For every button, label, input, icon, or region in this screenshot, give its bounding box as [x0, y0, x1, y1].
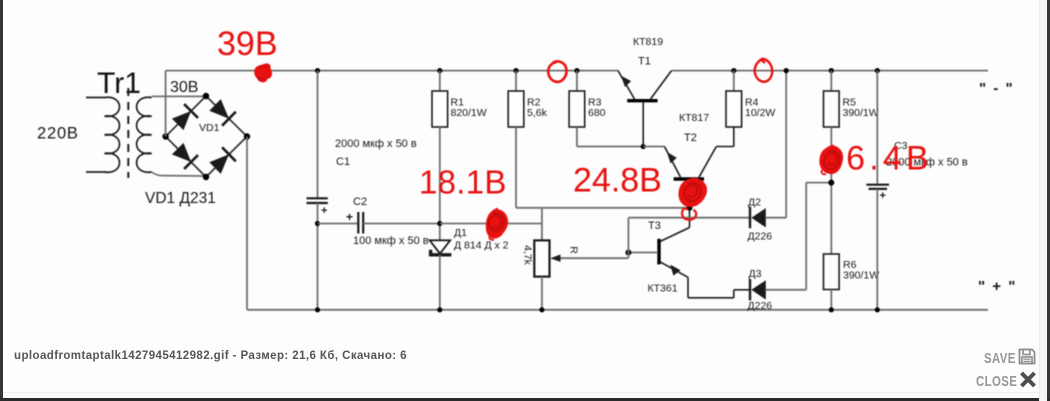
svg-text:" + ": " + " — [978, 278, 1017, 295]
node C1 bottom rail junction — [315, 307, 320, 312]
diode bridge edge+diode VD1b (top corner to right corner) — [206, 96, 247, 137]
svg-text:КТ819: КТ819 — [633, 36, 663, 48]
filename caption — [14, 350, 407, 362]
wire R5 bottom lead — [830, 127, 832, 254]
wire R6 bottom lead — [830, 290, 832, 310]
svg-text:R: R — [568, 246, 580, 254]
red annotation 18.1В — [419, 164, 507, 201]
wire primary bottom lead — [86, 171, 105, 173]
transformer Tr1 label — [97, 67, 141, 100]
label 10/2W (R4 value) — [745, 107, 775, 119]
svg-text:VD1: VD1 — [199, 122, 220, 134]
red scribble blob on T2 emitter — [678, 178, 707, 207]
node C1/C2 junction — [315, 221, 320, 226]
svg-text:Д226: Д226 — [748, 300, 773, 312]
label 820/1W (R1 value) — [451, 107, 487, 119]
svg-text:4,7k: 4,7k — [522, 245, 534, 266]
bottom dark border — [0, 398, 1050, 401]
diode Д3 triangle — [751, 280, 765, 299]
wire R3 to T1 base node — [577, 146, 643, 148]
transformer secondary winding — [137, 97, 152, 172]
label C3 — [894, 140, 908, 152]
wire pot top vertical — [541, 208, 543, 241]
transformer core dashed line — [127, 88, 129, 178]
zener diode D1 triangle — [430, 240, 451, 253]
svg-text:+: + — [346, 210, 353, 224]
node T1 base junction — [641, 144, 646, 149]
right dark border — [1047, 0, 1050, 401]
node output rail / R5 branch — [829, 68, 834, 73]
wire R4 top lead — [733, 71, 735, 91]
wire C2 left lead — [318, 223, 359, 225]
svg-text:Д 814 Д x 2: Д 814 Д x 2 — [454, 240, 509, 252]
label C1 plus polarity — [321, 205, 327, 217]
diode bridge edge+diode VD1d (bottom corner to right corner) — [206, 137, 247, 178]
red scribble blob on raw rail near 39В — [254, 63, 272, 82]
node raw rail / R1 branch — [437, 68, 442, 73]
svg-text:Д1: Д1 — [454, 227, 467, 239]
wire Д2 to rail drop — [766, 217, 786, 219]
transistor T1 base lead — [642, 102, 644, 146]
wire T3 base lead — [628, 252, 658, 254]
wire R2 top lead — [515, 71, 517, 91]
wire R2 corner to reference line — [516, 207, 542, 209]
label Д226 (D3 type) — [748, 300, 773, 312]
wire R3 top lead — [576, 71, 578, 91]
label 30В secondary voltage — [170, 79, 198, 96]
label T3 — [648, 220, 661, 232]
svg-text:T2: T2 — [684, 132, 697, 144]
red annotation 39В — [217, 25, 278, 63]
wire C2 right lead to D1 node — [363, 223, 440, 225]
label R rotated (pot designator) — [568, 246, 580, 254]
resistor R4 body — [726, 91, 742, 127]
node T2 emitter / reference junction — [687, 205, 693, 211]
wire C1 top lead — [317, 71, 319, 198]
label 4,7k rotated (pot value) — [522, 245, 534, 266]
node bridge left corner — [162, 133, 168, 139]
transistor T3 collector diagonal — [660, 228, 690, 242]
label Д3 — [749, 268, 762, 280]
wire R3 bottom lead — [576, 127, 578, 147]
label R1 — [451, 97, 465, 109]
svg-text:390/1W: 390/1W — [843, 107, 879, 119]
terminal plus label — [978, 278, 1017, 295]
node output rail / R4 branch — [731, 68, 736, 73]
svg-text:39В: 39В — [217, 25, 278, 63]
svg-text:820/1W: 820/1W — [451, 107, 487, 119]
zener diode D1 cathode bar with tail — [431, 250, 452, 255]
label 100 мкф x 50 в (C2 value) — [353, 235, 429, 247]
diode Д3 cathode bar — [749, 279, 751, 300]
left dark border — [0, 0, 3, 401]
wire R2 bottom lead — [515, 127, 517, 208]
save floppy icon — [1018, 348, 1036, 365]
transistor T1 base bar — [627, 99, 657, 102]
svg-text:100 мкф x 50 в: 100 мкф x 50 в — [353, 235, 429, 247]
svg-text:T3: T3 — [648, 220, 661, 232]
red scribble ring on output rail left of R4 — [755, 59, 773, 82]
node raw rail / R2 branch — [513, 68, 518, 73]
node D1 bottom rail junction — [437, 307, 442, 312]
label C1 — [336, 156, 350, 168]
transistor T3 base bar — [657, 239, 660, 265]
label KT361 (T3 type) — [648, 283, 678, 295]
resistor R1 body — [432, 91, 448, 127]
svg-text:КТ817: КТ817 — [679, 112, 709, 124]
label Д1 — [454, 227, 467, 239]
red scribble blob on R5 lead (36.4В) — [819, 146, 843, 175]
label R6 — [843, 259, 857, 271]
node output rail / C3 branch — [875, 68, 880, 73]
label 390/1W (R5 value) — [843, 107, 879, 119]
label Д2 — [748, 197, 761, 209]
wire C1 bottom lead — [317, 203, 319, 310]
svg-text:24.8В: 24.8В — [573, 162, 662, 200]
wire output rail down to Д2 — [785, 71, 787, 218]
close X icon — [1019, 371, 1037, 388]
potentiometer wiper arrow — [550, 255, 628, 262]
resistor R5 body — [824, 91, 840, 127]
label 5,6k (R2 value) — [527, 107, 548, 119]
svg-text:Д226: Д226 — [748, 231, 773, 243]
wire T2 emitter down lead — [689, 181, 691, 228]
svg-text:Д3: Д3 — [749, 268, 762, 280]
svg-text:220В: 220В — [37, 125, 79, 143]
capacitor C2 plates — [358, 212, 363, 234]
label KT819 (T1 type) — [633, 36, 663, 48]
diode bridge edge+diode VD1c (left corner to bottom corner) — [166, 137, 206, 178]
svg-text:+: + — [321, 205, 327, 217]
transistor T3 emitter diagonal with arrow — [660, 262, 688, 278]
label C3 plus polarity — [880, 190, 886, 202]
node R5/R6/Д3 junction — [828, 180, 834, 186]
red scribble ring on raw rail left of R3 — [548, 61, 566, 81]
wire pot bottom lead — [541, 277, 543, 310]
wire secondary top lead to bridge top node — [152, 95, 204, 97]
svg-text:" - ": " - " — [979, 80, 1014, 97]
wire corner up to R5/R6 node — [805, 183, 807, 290]
potentiometer R body — [534, 240, 549, 276]
save button label — [984, 350, 1016, 367]
red annotation 36.4В — [823, 140, 933, 178]
resistor R2 body — [508, 91, 524, 127]
label C2 — [353, 196, 367, 208]
capacitor C1 plates — [307, 198, 328, 203]
wire bridge right corner down to bottom rail — [246, 137, 248, 310]
label Д226 (D2 type) — [748, 231, 773, 243]
label VD1 Д231 — [145, 190, 216, 207]
transistor T2 base bar — [674, 177, 704, 180]
wire top raw rail (bridge to T1 emitter) — [166, 70, 618, 72]
red scribble cup below T2 emitter blob — [682, 209, 696, 220]
subtle right-edge shading — [1040, 0, 1047, 401]
label R2 — [527, 97, 541, 109]
label R4 — [745, 97, 759, 109]
svg-text:30В: 30В — [170, 79, 198, 96]
terminal minus label — [979, 80, 1014, 97]
node R6 bottom rail junction — [829, 307, 834, 312]
label 2000 мкф x 50 в (C3 value) — [886, 157, 968, 169]
transistor T2 collector diagonal — [699, 147, 716, 178]
svg-text:T1: T1 — [638, 56, 651, 68]
wire step up to Д3 — [733, 290, 735, 298]
transistor T2 emitter diagonal with arrow — [665, 147, 681, 178]
wire D1 node to pot vertical — [440, 223, 542, 225]
diode bridge edge+diode VD1a (left corner to top corner) — [166, 96, 206, 137]
svg-text:КТ361: КТ361 — [648, 283, 678, 295]
wire reference line y=208 to T2 emitter node — [542, 207, 690, 209]
wire corner to R5/R6 node — [806, 182, 831, 184]
wire bridge left corner up to raw negative rail — [165, 71, 167, 137]
wire secondary bottom lead to bridge bottom node — [152, 172, 205, 176]
wire D1 bottom lead — [439, 255, 441, 310]
subtle separator line above bottom border — [3, 392, 1047, 393]
node pot bottom rail junction — [539, 307, 544, 312]
label T1 — [638, 56, 651, 68]
label R5 — [843, 97, 857, 109]
red annotation 24.8В — [573, 162, 662, 200]
resistor R3 body — [569, 91, 585, 127]
svg-text:680: 680 — [588, 107, 606, 119]
wire R1 bottom lead to D1 — [439, 127, 441, 240]
label T2 — [684, 132, 697, 144]
wire top output rail (T1 collector to minus terminal) — [672, 70, 989, 72]
label 680 (R3 value) — [588, 107, 606, 119]
svg-text:Д2: Д2 — [748, 197, 761, 209]
label 2000 мкф x 50 в (C1 value) — [335, 138, 417, 150]
wire primary top lead — [86, 97, 105, 99]
close button label — [976, 373, 1017, 390]
label KT817 (T2 type) — [679, 112, 709, 124]
diode Д2 cathode bar — [749, 207, 751, 228]
svg-text:C1: C1 — [336, 156, 350, 168]
wire T3 emitter horizontal — [688, 297, 734, 299]
wire T1 base node to T2 emitter diagonal — [643, 146, 664, 148]
node T3 base / wiper junction — [625, 250, 631, 256]
resistor R6 body — [824, 254, 840, 290]
label VD1 inside bridge — [199, 122, 220, 134]
svg-text:+: + — [880, 190, 886, 202]
label R3 — [588, 97, 602, 109]
node bridge top corner — [203, 93, 209, 99]
svg-text:5,6k: 5,6k — [527, 107, 548, 119]
label Д 814 Д x 2 (D1 value) — [454, 240, 509, 252]
svg-text:18.1В: 18.1В — [419, 164, 507, 201]
diode Д2 triangle — [751, 208, 765, 227]
label 220В primary voltage — [37, 125, 79, 143]
label 390/1W (R6 value) — [843, 270, 879, 282]
node bridge right corner — [244, 133, 250, 139]
svg-text:2000 мкф x 50 в: 2000 мкф x 50 в — [335, 138, 417, 150]
wire bottom plus rail — [247, 309, 988, 311]
wire Д3 right to corner — [766, 289, 806, 291]
node C3 bottom rail junction — [875, 307, 880, 312]
node D1 top junction — [437, 221, 442, 226]
node bridge bottom corner — [203, 174, 209, 180]
wire into Д3 anode... cathode bar side — [734, 289, 750, 291]
node raw rail / R3 branch — [574, 68, 579, 73]
wire R1 top lead — [439, 71, 441, 91]
svg-text:10/2W: 10/2W — [745, 107, 775, 119]
transistor T1 collector diagonal — [651, 71, 672, 99]
transformer T r1 primary winding — [105, 97, 120, 172]
wire T3 base node to D2 line — [628, 217, 749, 219]
red scribble blob on reference wire (18.1В) — [486, 209, 508, 240]
node raw rail / C1 branch — [315, 68, 320, 73]
wire C3 bottom lead — [876, 189, 878, 310]
svg-text:VD1 Д231: VD1 Д231 — [145, 190, 216, 207]
svg-text:C2: C2 — [353, 196, 367, 208]
wire C3 top lead — [876, 71, 878, 185]
wire R5 top lead — [830, 71, 832, 91]
svg-text:Tr1: Tr1 — [97, 67, 141, 100]
wire T2 collector horizontal — [716, 146, 734, 148]
transistor T1 emitter diagonal with arrow — [618, 71, 635, 99]
capacitor C3 plates — [866, 185, 889, 189]
label C2 plus polarity — [346, 210, 353, 224]
wire T2 collector up to R4 — [733, 127, 735, 147]
wire T3 base node vertical — [627, 218, 629, 259]
node output rail / Д2 drop — [784, 68, 789, 73]
svg-text:390/1W: 390/1W — [843, 270, 879, 282]
wire T3 emitter down — [687, 277, 689, 298]
